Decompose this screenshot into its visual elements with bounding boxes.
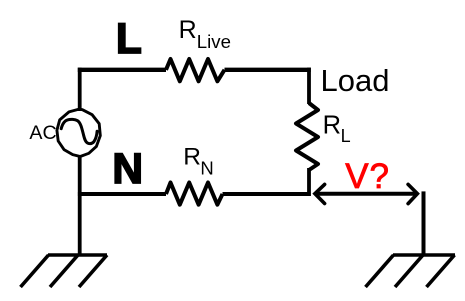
svg-text:L: L: [341, 126, 351, 146]
svg-text:R: R: [179, 16, 197, 44]
wire right vertical lower: [307, 168, 311, 196]
AC source U1: [57, 109, 100, 156]
svg-text:R: R: [183, 144, 201, 171]
wire right vertical upper: [307, 68, 311, 104]
label R_L: [323, 111, 351, 146]
svg-text:V?: V?: [345, 157, 390, 196]
resistor R_N: [166, 183, 223, 205]
svg-text:N: N: [200, 158, 213, 179]
resistor R_L: [296, 103, 318, 170]
wire N bottom horizontal: [78, 192, 311, 196]
label R_N: [183, 144, 214, 179]
resistor R_Live: [166, 59, 225, 81]
voltage measurement arrow V?: [315, 184, 418, 203]
wire L top horizontal: [78, 68, 311, 72]
svg-text:N: N: [112, 146, 143, 193]
svg-text:Live: Live: [197, 31, 231, 52]
label L (live): [116, 16, 142, 63]
svg-text:L: L: [116, 16, 142, 63]
svg-text:R: R: [323, 111, 341, 139]
wire left vertical lower: [78, 157, 82, 255]
ground right: [366, 255, 456, 287]
wire left vertical upper: [78, 68, 82, 111]
ground left: [21, 255, 108, 287]
svg-text:Load: Load: [321, 63, 390, 98]
label R_Live: [179, 16, 231, 52]
wire right measurement vertical: [422, 191, 426, 255]
svg-text:AC: AC: [29, 122, 56, 144]
